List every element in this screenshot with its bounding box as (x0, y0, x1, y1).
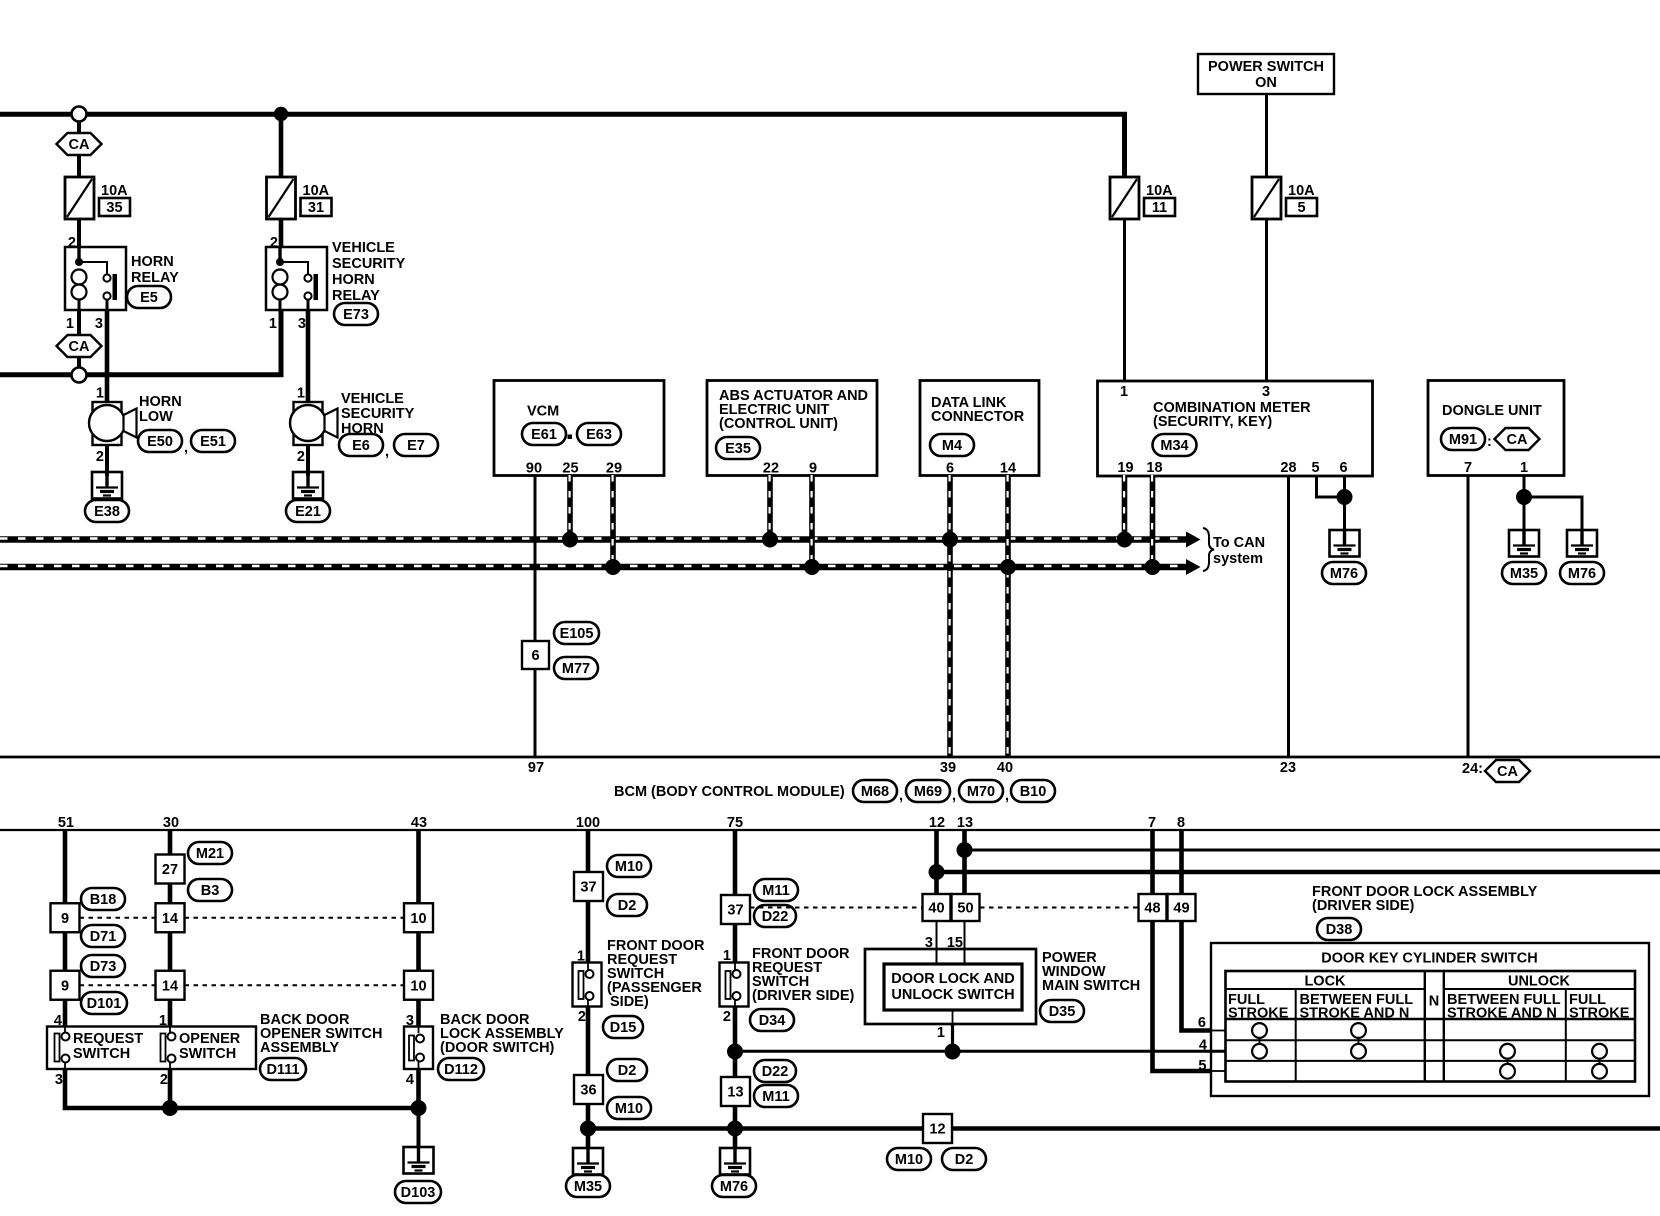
svg-text:31: 31 (308, 200, 324, 216)
svg-text:D2: D2 (618, 1063, 637, 1079)
svg-text:M70: M70 (967, 784, 995, 800)
svg-text:D71: D71 (90, 929, 117, 945)
svg-text:REQUEST: REQUEST (73, 1031, 143, 1047)
wire back door pin4 down (416, 1069, 421, 1108)
svg-text:5: 5 (1311, 460, 1319, 476)
junction dot ABS22 on CAN1 (762, 532, 778, 548)
CAN stub VCM pin 25 (567, 475, 573, 536)
svg-text:18: 18 (1146, 460, 1162, 476)
connector box 37 (M11/D22) (721, 895, 750, 924)
junction open circle on rail2 (72, 368, 87, 383)
junction dot ABS9 on CAN2 (804, 559, 820, 575)
ground M35 (dongle) (1509, 530, 1539, 557)
ground M35 (passenger) (573, 1148, 603, 1175)
svg-text:5: 5 (1297, 200, 1305, 216)
connector D71 (81, 925, 125, 947)
wire col30 mid (168, 932, 173, 971)
wire driver switch pin2 down (733, 1007, 738, 1078)
svg-text:6: 6 (946, 461, 954, 477)
svg-text:(DRIVER SIDE): (DRIVER SIDE) (1312, 898, 1414, 914)
vehicle security horn symbol (290, 402, 338, 445)
connector D2 (607, 1059, 647, 1081)
wire col51 mid (63, 932, 68, 971)
svg-text:E21: E21 (295, 504, 321, 520)
svg-text:E5: E5 (140, 290, 158, 306)
svg-text:D73: D73 (90, 959, 117, 975)
wire dongle pin 1 to grounds (1523, 475, 1526, 530)
connector box 14 (lower) (156, 971, 185, 1000)
svg-text:51: 51 (58, 815, 74, 831)
connector M76 (712, 1175, 756, 1197)
svg-text:43: 43 (411, 815, 427, 831)
wire BCM 43 down (416, 830, 421, 904)
svg-text::: : (1487, 434, 1492, 450)
svg-text:13: 13 (957, 815, 973, 831)
svg-text:2: 2 (160, 1072, 168, 1088)
svg-text:E105: E105 (560, 626, 594, 642)
wire col51 to request switch (63, 1000, 68, 1027)
svg-text:3: 3 (55, 1072, 63, 1088)
junction dot col75 on bus (727, 1121, 743, 1137)
wire col75 to ground (733, 1106, 738, 1148)
svg-text:,: , (952, 788, 956, 804)
connector box 12 on bus (923, 1114, 952, 1143)
connector M76 (1560, 562, 1604, 584)
svg-text:40: 40 (997, 760, 1013, 776)
svg-text:M4: M4 (942, 438, 962, 454)
ground E38 (92, 472, 122, 499)
connector D35 (1040, 1000, 1084, 1022)
CAN stub meter pin 19 (1122, 475, 1128, 536)
svg-text:DONGLE UNIT: DONGLE UNIT (1442, 403, 1542, 419)
connector D101 (81, 992, 127, 1014)
connector E21 (286, 500, 330, 522)
wire security horn pin2 to ground (306, 445, 310, 476)
connector D73 (81, 955, 125, 977)
connector box 48 (1139, 894, 1167, 921)
connector box 50 (952, 894, 980, 921)
box DONGLE UNIT (1428, 381, 1564, 476)
wire dongle pin 7 to BCM 24 (1467, 475, 1470, 758)
svg-text:D22: D22 (762, 1064, 789, 1080)
CAN stub ABS pin 9 (809, 475, 815, 564)
svg-text:(SECURITY, KEY): (SECURITY, KEY) (1153, 414, 1272, 430)
wire top power rail (0, 114, 1125, 177)
svg-text:M35: M35 (574, 1179, 602, 1195)
svg-text:11: 11 (1152, 200, 1167, 216)
dashed link 14-10 lower (185, 984, 405, 986)
svg-text:ASSEMBLY: ASSEMBLY (260, 1040, 340, 1056)
wire col30 (168, 883, 173, 904)
dashed link 14-10 upper (185, 917, 405, 919)
wire BCM 75 down (733, 830, 738, 895)
svg-text:STROKE: STROKE (1569, 1006, 1630, 1022)
CAN stub meter pin 18 (1150, 475, 1156, 564)
svg-text:24:: 24: (1462, 761, 1483, 777)
connector M35 (1502, 562, 1546, 584)
connector E50 (138, 430, 182, 452)
svg-text:CA: CA (1507, 432, 1528, 448)
passenger request switch contact (579, 963, 594, 1007)
connector M76 (1322, 562, 1366, 584)
CAN bus line 2 (0, 564, 1186, 571)
svg-text:1: 1 (1520, 460, 1528, 476)
junction dot meter18 on CAN2 (1145, 559, 1161, 575)
svg-text:D2: D2 (955, 1152, 974, 1168)
svg-text:SECURITY: SECURITY (341, 406, 415, 422)
junction dot VCM29 on CAN2 (605, 559, 621, 575)
wire fuse 11 to meter pin1 (1123, 219, 1126, 381)
connector M77 (554, 657, 598, 679)
wire BCM 8 down (1179, 830, 1184, 894)
wire fuse35 to horn relay pin2 (77, 219, 81, 247)
contacts lock between full stroke and N (1358, 1031, 1360, 1052)
svg-text:SWITCH: SWITCH (179, 1046, 236, 1062)
svg-text:OPENER: OPENER (179, 1031, 241, 1047)
connector D111 (260, 1058, 306, 1080)
junction dot meter19 on CAN1 (1117, 532, 1133, 548)
wire passenger switch pin2 down (586, 1007, 591, 1076)
svg-text:SWITCH: SWITCH (73, 1046, 130, 1062)
connector D34 (750, 1009, 794, 1031)
svg-text:36: 36 (580, 1083, 596, 1099)
svg-text:7: 7 (1148, 815, 1156, 831)
svg-text:UNLOCK: UNLOCK (1508, 974, 1571, 990)
connector D38 (1317, 918, 1361, 940)
svg-text:CONNECTOR: CONNECTOR (931, 409, 1025, 425)
wire fuse 5 to meter pin3 (1265, 219, 1268, 381)
svg-text:1: 1 (1120, 384, 1128, 400)
svg-text:40: 40 (928, 901, 944, 917)
svg-text:BCM (BODY CONTROL MODULE): BCM (BODY CONTROL MODULE) (614, 784, 845, 800)
connector B10 (1011, 780, 1055, 802)
svg-text:D112: D112 (444, 1062, 478, 1078)
svg-text:M77: M77 (562, 661, 590, 677)
table door key cylinder switch (1226, 971, 1636, 1082)
driver request switch contact (726, 963, 741, 1007)
svg-text:MAIN SWITCH: MAIN SWITCH (1042, 978, 1140, 994)
svg-text:10A: 10A (303, 183, 330, 199)
connector E51 (191, 430, 235, 452)
svg-text:system: system (1213, 551, 1263, 567)
svg-text:9: 9 (61, 911, 69, 927)
wire BCM 7 down (1150, 830, 1155, 894)
svg-text:12: 12 (929, 815, 945, 831)
svg-text:2: 2 (723, 1009, 731, 1025)
svg-text:M68: M68 (861, 784, 889, 800)
wire relay E5 pin3 to horn low pin1 (105, 310, 110, 402)
svg-text:10: 10 (410, 978, 426, 994)
box front door request switch driver (720, 963, 749, 1007)
svg-text:RELAY: RELAY (131, 270, 179, 286)
svg-text:25: 25 (562, 461, 578, 477)
wire meter pin 28 to BCM 23 (1287, 475, 1290, 758)
svg-text:D15: D15 (610, 1020, 637, 1036)
connector D22 (754, 905, 796, 927)
connector box 6 on wire 90 (522, 641, 549, 669)
wire BCM 12 down (934, 830, 939, 894)
junction dot lock switch pin1 (945, 1044, 961, 1060)
opener switch contact (161, 1027, 176, 1070)
svg-text:N: N (1429, 994, 1439, 1010)
wire second power rail (to horn relays pin 1) (0, 310, 281, 375)
svg-text:14: 14 (162, 978, 178, 994)
ground E21 (293, 472, 323, 499)
connector box 27 (M21/B3) (156, 855, 185, 884)
svg-text:D2: D2 (618, 898, 637, 914)
CAN bus line 1 (0, 536, 1186, 543)
wire opener switch pin2 down (168, 1069, 173, 1108)
connector M10 (607, 1097, 651, 1119)
svg-text:STROKE: STROKE (1228, 1006, 1289, 1022)
wire fuse35 branch (77, 121, 81, 177)
svg-text:4: 4 (1199, 1038, 1207, 1054)
svg-text:E7: E7 (407, 438, 425, 454)
box door key cylinder switch (1211, 943, 1649, 1096)
svg-text:10A: 10A (1288, 183, 1315, 199)
wire col30 to opener switch (168, 1000, 173, 1027)
svg-text:8: 8 (1177, 815, 1185, 831)
svg-text:49: 49 (1173, 901, 1189, 917)
connector D2 (607, 894, 647, 916)
ground M76 (driver) (720, 1148, 750, 1175)
svg-text:6: 6 (1339, 460, 1347, 476)
svg-text:POWER SWITCH: POWER SWITCH (1208, 59, 1324, 75)
svg-text:97: 97 (528, 760, 544, 776)
svg-text:STROKE AND N: STROKE AND N (1447, 1006, 1557, 1022)
svg-text:14: 14 (1000, 461, 1016, 477)
svg-text:3: 3 (1262, 384, 1270, 400)
svg-text:39: 39 (940, 760, 956, 776)
svg-text:D22: D22 (762, 909, 789, 925)
wire relay E73 pin3 to security horn pin1 (306, 310, 311, 402)
svg-text:2: 2 (270, 235, 278, 251)
fuse 31 10A (267, 177, 332, 219)
svg-text:14: 14 (162, 911, 178, 927)
ground D103 (404, 1147, 434, 1174)
connector M4 (930, 434, 974, 456)
svg-text:VEHICLE: VEHICLE (341, 391, 404, 407)
junction dot VCM25 on CAN1 (562, 532, 578, 548)
svg-text:SECURITY: SECURITY (332, 256, 406, 272)
svg-text:6: 6 (531, 648, 539, 664)
svg-text:SIDE): SIDE) (610, 994, 649, 1010)
junction open circle on top rail (72, 107, 87, 122)
connector M70 (959, 780, 1003, 802)
connector D112 (438, 1058, 484, 1080)
wire BCM 100 down (586, 830, 591, 872)
svg-text:1: 1 (269, 316, 277, 332)
svg-text:12: 12 (929, 1122, 945, 1138)
connector box 40 (923, 894, 951, 921)
junction dot col13 (957, 842, 973, 858)
svg-text:D101: D101 (87, 996, 122, 1012)
connector box 49 (1168, 894, 1196, 921)
brace to CAN system (1203, 528, 1214, 571)
wire power switch to fuse 5 (1265, 94, 1268, 177)
connector M68 (853, 780, 897, 802)
svg-text:19: 19 (1117, 460, 1133, 476)
svg-text:B3: B3 (201, 883, 220, 899)
BCM top line (0, 756, 1660, 759)
connector M11 (754, 1085, 798, 1107)
box back door lock assembly switch (404, 1027, 433, 1070)
svg-text:DOOR KEY CYLINDER SWITCH: DOOR KEY CYLINDER SWITCH (1321, 951, 1537, 967)
svg-text:6: 6 (1198, 1015, 1206, 1031)
svg-text:50: 50 (957, 901, 973, 917)
box ABS ACTUATOR AND ELECTRIC UNIT (707, 381, 877, 476)
junction dot back door pin4 (411, 1100, 427, 1116)
contacts lock full stroke (1259, 1031, 1261, 1052)
CAN stub DLC pin 6 down to BCM 39 (947, 475, 953, 758)
dashed link 50-48 (980, 907, 1139, 909)
wire col75 to request switch (733, 924, 738, 963)
svg-text:M91: M91 (1449, 432, 1477, 448)
connector E73 (334, 303, 378, 325)
wire BCM 30 down (168, 830, 173, 855)
svg-text:2: 2 (578, 1009, 586, 1025)
svg-text:E50: E50 (147, 434, 173, 450)
svg-text:E38: E38 (94, 504, 120, 520)
junction dot col12 (929, 864, 945, 880)
svg-text:9: 9 (809, 461, 817, 477)
wire col43 to door switch (416, 1000, 421, 1027)
connector D103 (395, 1181, 441, 1203)
wire meter pin 6 to ground (1343, 475, 1346, 530)
svg-text:D38: D38 (1326, 922, 1353, 938)
connector E6 (339, 434, 383, 456)
svg-text:75: 75 (727, 815, 743, 831)
connector box 36 (D2/M10) (574, 1075, 603, 1104)
connector box 9 (D73/D101) (51, 971, 80, 1000)
junction dot col75 on lock wire (727, 1044, 743, 1060)
dashed link 37-40 (750, 907, 922, 909)
svg-text:D35: D35 (1049, 1004, 1076, 1020)
connector box 14 (upper) (156, 903, 185, 932)
fuse 35 10A (65, 177, 130, 219)
svg-text:M10: M10 (615, 859, 643, 875)
svg-text:35: 35 (106, 200, 122, 216)
junction dot on top rail at fuse 31 branch (274, 107, 288, 121)
svg-text:CA: CA (69, 339, 90, 355)
junction dot opener pin2 (162, 1100, 178, 1116)
connector B3 (188, 879, 232, 901)
BCM bottom line (0, 829, 1660, 831)
box front door request switch passenger (573, 963, 602, 1007)
svg-text:E63: E63 (586, 427, 612, 443)
wire BCM 51 down (63, 830, 68, 904)
junction dot dongle ground (1516, 489, 1532, 505)
wire meter pin 5 to ground junction (1317, 475, 1345, 497)
svg-text:1: 1 (66, 316, 74, 332)
svg-text:(CONTROL UNIT): (CONTROL UNIT) (719, 416, 838, 432)
wire col7 to table pin5 (1153, 921, 1212, 1071)
svg-text:ON: ON (1255, 75, 1277, 91)
svg-text:M34: M34 (1160, 438, 1188, 454)
svg-text:VCM: VCM (527, 404, 559, 420)
wire VCM pin 90 to BCM 97 (534, 475, 537, 758)
CAN stub VCM pin 29 (610, 475, 616, 564)
connector box 9 (B18/D71) (51, 903, 80, 932)
connector box 37 (M10/D2) (574, 872, 603, 901)
connector E38 (85, 500, 129, 522)
connector D2 (942, 1148, 986, 1170)
svg-text:UNLOCK SWITCH: UNLOCK SWITCH (891, 987, 1014, 1003)
fuse 5 10A (1252, 177, 1317, 219)
connector D15 (603, 1016, 643, 1038)
svg-text:13: 13 (727, 1085, 743, 1101)
svg-text:1: 1 (937, 1025, 945, 1041)
svg-text:B18: B18 (90, 892, 117, 908)
svg-text:3: 3 (95, 316, 103, 332)
svg-text:9: 9 (61, 978, 69, 994)
connector E61 (522, 423, 566, 445)
svg-text:D111: D111 (266, 1062, 299, 1078)
svg-text:D103: D103 (401, 1185, 436, 1201)
svg-text:M10: M10 (895, 1152, 923, 1168)
connector CA (BCM 24) (1485, 760, 1530, 782)
svg-text:,: , (899, 788, 903, 804)
svg-text:,: , (1005, 788, 1009, 804)
wire horn low pin2 to ground (105, 445, 109, 476)
svg-text:M10: M10 (615, 1101, 643, 1117)
wire to ground D103 (417, 1108, 421, 1147)
wire dongle ground branch right (1524, 497, 1582, 530)
svg-text:HORN: HORN (139, 394, 182, 410)
junction dot meter ground (1337, 489, 1353, 505)
connector M91 (1441, 428, 1485, 450)
svg-text:1: 1 (297, 386, 305, 402)
svg-text:B10: B10 (1020, 784, 1047, 800)
junction dot DLC14 on CAN2 (1000, 559, 1016, 575)
connector M69 (906, 780, 950, 802)
svg-text:5: 5 (1198, 1058, 1206, 1074)
svg-text:37: 37 (580, 880, 596, 896)
svg-text:To CAN: To CAN (1213, 535, 1265, 551)
svg-text:7: 7 (1464, 460, 1472, 476)
svg-text:M76: M76 (720, 1179, 748, 1195)
svg-text:LOW: LOW (139, 409, 173, 425)
ground M76 (meter) (1330, 530, 1360, 557)
svg-text:27: 27 (162, 862, 178, 878)
svg-text:4: 4 (406, 1072, 414, 1088)
svg-text:E51: E51 (200, 434, 226, 450)
wire relay E5 pin1 to rail2 via CA (77, 310, 81, 334)
connector B18 (81, 888, 125, 910)
svg-text:M35: M35 (1510, 566, 1538, 582)
ground M76 (dongle) (1567, 530, 1597, 557)
svg-text:,: , (184, 440, 188, 456)
svg-text:,: , (385, 444, 389, 460)
svg-text:M76: M76 (1568, 566, 1596, 582)
fuse 11 10A (1110, 177, 1175, 219)
svg-text:VEHICLE: VEHICLE (332, 240, 395, 256)
relay E73 VEHICLE SECURITY HORN RELAY (266, 247, 327, 310)
svg-text:M11: M11 (762, 1089, 789, 1105)
svg-text:2: 2 (68, 235, 76, 251)
wire bottom ground bus (588, 1126, 1660, 1131)
svg-text:STROKE AND N: STROKE AND N (1300, 1006, 1410, 1022)
wire 50 to inner box (964, 921, 966, 964)
wire lock bus row (thick) (937, 870, 1660, 875)
svg-text:M11: M11 (762, 883, 789, 899)
CAN bus line 2 arrow (1186, 559, 1201, 575)
box COMBINATION METER (SECURITY, KEY) (1098, 381, 1373, 476)
svg-text:1: 1 (96, 386, 104, 402)
wire lock row to table pin4 (735, 1050, 1226, 1053)
back door switch contact (409, 1027, 424, 1070)
svg-text:10A: 10A (1146, 183, 1173, 199)
